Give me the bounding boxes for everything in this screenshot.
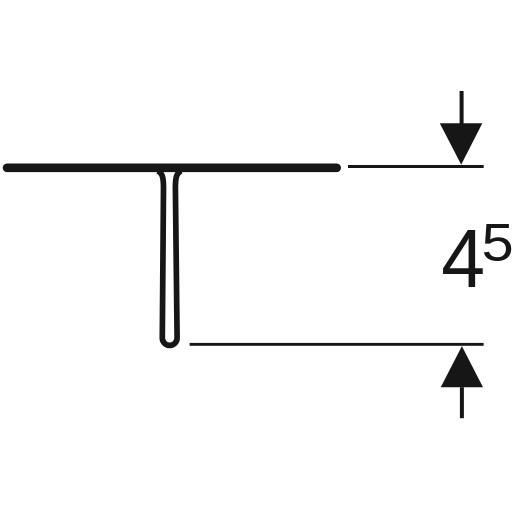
top extension line [348,165,484,168]
bottom arrow leader line [460,387,464,418]
svg-text:5: 5 [482,214,512,273]
profile top flange bar [3,164,341,173]
profile stem tube outline [158,171,181,346]
bottom extension line [190,343,484,346]
top dimension arrow (down) [440,123,483,164]
top arrow leader line [460,91,464,125]
bottom dimension arrow (up) [441,346,483,387]
svg-text:4: 4 [441,213,485,305]
